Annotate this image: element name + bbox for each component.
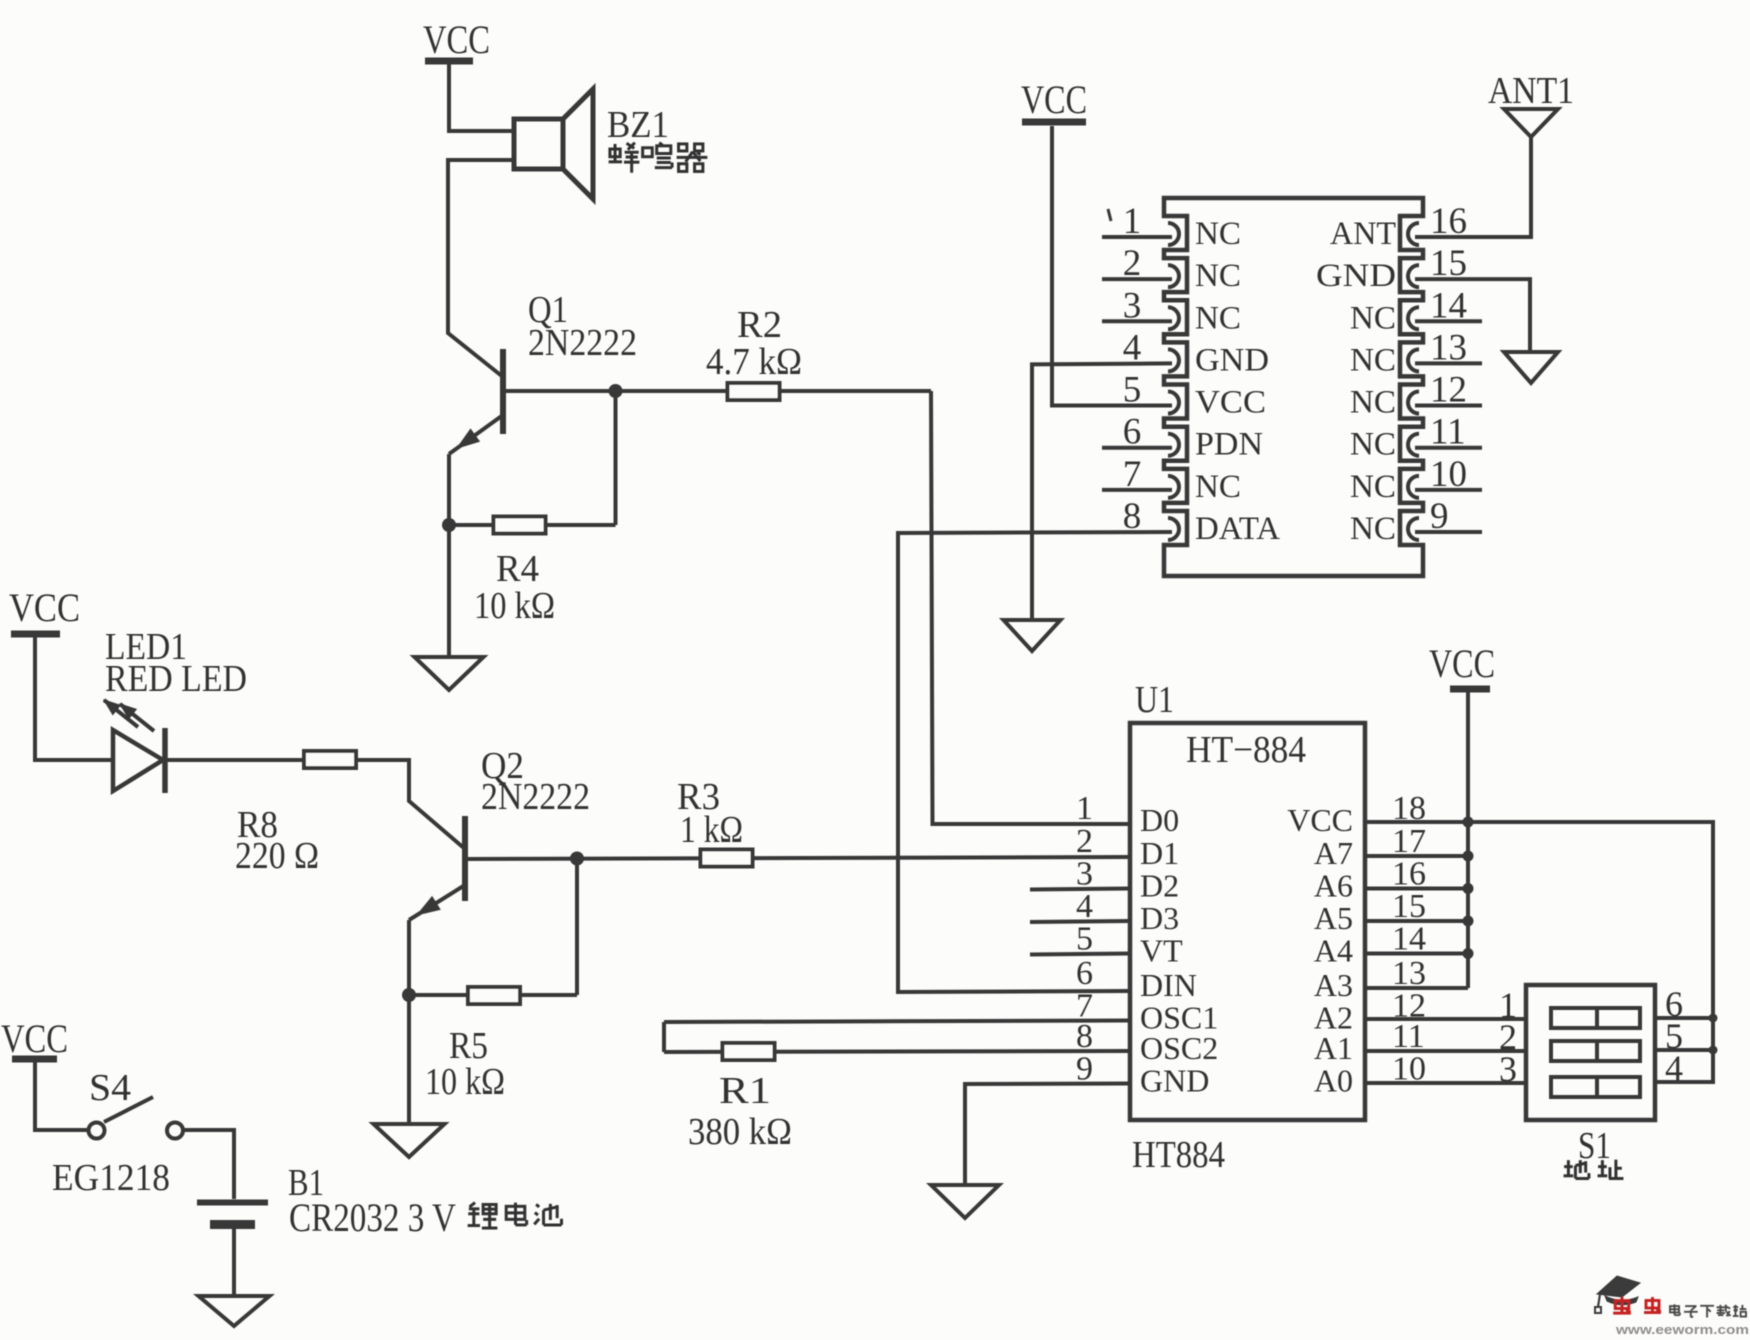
svg-text:D3: D3 — [1140, 900, 1179, 936]
svg-text:10 kΩ: 10 kΩ — [474, 585, 555, 627]
svg-text:NC: NC — [1350, 427, 1396, 463]
svg-text:HT−884: HT−884 — [1186, 729, 1306, 771]
svg-text:PDN: PDN — [1195, 427, 1263, 463]
svg-text:GND: GND — [1140, 1063, 1209, 1099]
svg-text:380 kΩ: 380 kΩ — [688, 1111, 792, 1153]
svg-text:S4: S4 — [89, 1067, 131, 1109]
svg-text:NC: NC — [1350, 385, 1396, 421]
svg-text:S1: S1 — [1578, 1125, 1611, 1167]
svg-text:CR2032 3 V: CR2032 3 V — [289, 1195, 456, 1240]
svg-text:VCC: VCC — [423, 17, 490, 62]
svg-text:A7: A7 — [1314, 835, 1353, 871]
svg-text:10 kΩ: 10 kΩ — [425, 1061, 505, 1103]
svg-text:U1: U1 — [1135, 679, 1174, 721]
svg-text:A0: A0 — [1314, 1063, 1353, 1099]
svg-text:NC: NC — [1350, 342, 1396, 378]
svg-text:NC: NC — [1195, 216, 1241, 252]
svg-text:NC: NC — [1350, 469, 1396, 505]
svg-text:NC: NC — [1350, 511, 1396, 547]
svg-text:VCC: VCC — [1195, 385, 1266, 421]
svg-text:DIN: DIN — [1140, 967, 1197, 1003]
svg-text:R4: R4 — [496, 548, 539, 590]
svg-text:220 Ω: 220 Ω — [235, 835, 319, 877]
svg-text:HT884: HT884 — [1132, 1134, 1225, 1176]
svg-text:GND: GND — [1316, 258, 1396, 294]
svg-text:NC: NC — [1195, 469, 1241, 505]
svg-text:VCC: VCC — [1287, 802, 1353, 838]
svg-text:OSC2: OSC2 — [1140, 1030, 1218, 1066]
svg-text:RED LED: RED LED — [105, 658, 247, 700]
svg-text:GND: GND — [1195, 342, 1269, 378]
svg-text:A3: A3 — [1314, 967, 1353, 1003]
svg-text:A6: A6 — [1314, 868, 1353, 904]
svg-text:A1: A1 — [1314, 1030, 1353, 1066]
svg-text:ANT: ANT — [1330, 216, 1396, 252]
svg-text:DATA: DATA — [1195, 511, 1280, 547]
svg-text:NC: NC — [1350, 300, 1396, 336]
svg-text:6: 6 — [1076, 955, 1093, 992]
svg-text:A5: A5 — [1314, 900, 1353, 936]
svg-text:2: 2 — [1076, 823, 1093, 860]
svg-text:1: 1 — [1076, 790, 1093, 827]
svg-text:www.eeworm.com: www.eeworm.com — [1615, 1322, 1749, 1335]
svg-text:NC: NC — [1195, 300, 1241, 336]
svg-text:EG1218: EG1218 — [52, 1157, 170, 1199]
svg-text:BZ1: BZ1 — [607, 104, 669, 146]
svg-text:2N2222: 2N2222 — [528, 322, 637, 364]
svg-text:A4: A4 — [1314, 933, 1353, 969]
svg-text:R2: R2 — [737, 304, 782, 346]
svg-text:R1: R1 — [719, 1070, 771, 1112]
svg-text:VCC: VCC — [9, 585, 80, 630]
svg-text:4: 4 — [1665, 1048, 1683, 1088]
svg-text:D0: D0 — [1140, 802, 1179, 838]
svg-text:D1: D1 — [1140, 835, 1179, 871]
svg-text:NC: NC — [1195, 258, 1241, 294]
svg-text:VT: VT — [1140, 933, 1183, 969]
svg-text:D2: D2 — [1140, 868, 1179, 904]
svg-text:1 kΩ: 1 kΩ — [680, 809, 743, 851]
svg-text:3: 3 — [1499, 1049, 1517, 1089]
svg-text:ANT1: ANT1 — [1488, 70, 1574, 112]
svg-text:2N2222: 2N2222 — [481, 776, 590, 818]
svg-text:4.7 kΩ: 4.7 kΩ — [706, 341, 802, 383]
svg-text:VCC: VCC — [1, 1016, 68, 1061]
svg-text:VCC: VCC — [1429, 641, 1495, 686]
svg-text:VCC: VCC — [1021, 77, 1087, 122]
